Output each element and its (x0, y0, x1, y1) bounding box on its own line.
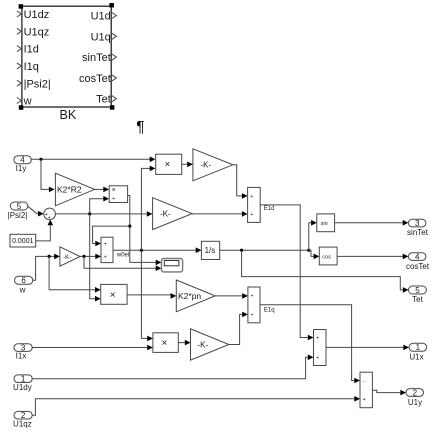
svg-text:sinTet: sinTet (407, 228, 429, 237)
wire U1qz to sum U1y (32, 396, 360, 415)
svg-text:E1q: E1q (264, 308, 275, 314)
sum circle (44, 208, 56, 221)
sum E1q (248, 287, 260, 323)
sum w0el (101, 237, 113, 262)
input port 3 I1x (14, 343, 32, 360)
svg-text:U1qz: U1qz (24, 26, 50, 38)
svg-text:Tet: Tet (96, 94, 111, 106)
svg-text:-K-: -K- (63, 255, 71, 261)
svg-text:×: × (110, 290, 116, 301)
gain K2*R2 (55, 173, 94, 206)
svg-text:K2*pn: K2*pn (178, 291, 201, 301)
svg-text:U1dz: U1dz (24, 9, 50, 21)
svg-text:-K-: -K- (160, 209, 171, 218)
product X2 (101, 284, 127, 304)
wire -K- small to sum w0el (80, 254, 101, 260)
svg-text:w: w (19, 285, 26, 294)
svg-text:×: × (165, 160, 171, 171)
wire X2 to gain K2*pn (127, 293, 176, 299)
svg-text:+: + (104, 242, 107, 248)
svg-text:U1y: U1y (408, 398, 422, 407)
svg-text:BK: BK (60, 108, 77, 122)
output port 5 Tet (409, 286, 427, 304)
wire w0el vertical up to product X1 (141, 166, 155, 251)
svg-text:2: 2 (413, 388, 418, 397)
svg-text:I1d: I1d (24, 44, 39, 56)
wire sum circle to gain -K- mid (55, 211, 152, 217)
wire -K- mid to sum E1d (192, 211, 248, 217)
svg-text:×: × (112, 187, 116, 194)
svg-text:I1y: I1y (16, 164, 27, 173)
product X3 (153, 333, 178, 353)
svg-text:|Psi2|: |Psi2| (24, 78, 51, 90)
svg-text:5: 5 (17, 202, 22, 211)
svg-text:¶: ¶ (136, 119, 144, 136)
output port 4 cosTet (406, 252, 430, 271)
svg-text:1/s: 1/s (205, 246, 216, 255)
output port 3 sinTet (407, 219, 429, 237)
display block (162, 259, 183, 272)
wire branch down to product X2 (90, 214, 101, 302)
wire E1d to sum U1x (260, 205, 313, 340)
wire 1/s out to sin cos branch (220, 249, 311, 252)
wire X1 to gain -K- top (182, 162, 193, 168)
svg-text:-K-: -K- (198, 340, 209, 349)
BK output port chevrons (112, 13, 116, 102)
cos block (319, 247, 337, 265)
output port 1 U1x (409, 343, 427, 361)
svg-text:cosTet: cosTet (406, 262, 430, 271)
wire feedback to sum w0el (93, 226, 130, 246)
svg-text:sin: sin (321, 221, 328, 227)
wire branch up to divide (90, 196, 109, 214)
wire U1dy to sum U1x (32, 355, 313, 379)
svg-text:sinTet: sinTet (82, 52, 111, 64)
wire 0.0001 to sum circle (36, 220, 53, 241)
input port 6 w (15, 276, 33, 294)
wire I1y to product X1 (31, 157, 155, 163)
gain K2*pn (176, 280, 215, 312)
input port 5 |Psi2| (8, 202, 28, 220)
wire E1q to sum U1y (260, 305, 360, 384)
gain -K- bottom (191, 329, 229, 360)
wire |Psi2| to sum circle (28, 206, 44, 216)
wire U1x sum to port 1 (326, 345, 409, 351)
svg-text:U1dy: U1dy (13, 383, 32, 392)
wire branch up to sin (309, 220, 317, 250)
svg-text:w: w (23, 96, 32, 108)
sum E1d (248, 187, 261, 222)
svg-text:E1d: E1d (264, 206, 275, 212)
constant 0.0001 (10, 234, 36, 247)
svg-text:+: + (104, 254, 107, 260)
svg-text:+: + (251, 312, 254, 318)
svg-text:K2*R2: K2*R2 (57, 185, 82, 195)
svg-text:cosTet: cosTet (79, 73, 111, 85)
wire -K- small branch to display (84, 256, 161, 271)
svg-text:+: + (48, 215, 51, 221)
svg-text:|Psi2|: |Psi2| (8, 211, 28, 220)
wire K2*R2 to divide (95, 187, 109, 193)
svg-text:6: 6 (21, 276, 26, 285)
input port 1 U1dy (13, 374, 32, 392)
wire jog to cos (309, 250, 320, 259)
wire K2*pn to sum E1q (215, 293, 248, 299)
svg-text:×: × (162, 338, 168, 349)
svg-text:3: 3 (415, 219, 420, 228)
gain -K- small (60, 247, 80, 266)
svg-text:I1q: I1q (24, 61, 39, 73)
svg-text:+: + (250, 194, 253, 200)
wire w0el to integrator 1/s (113, 247, 201, 253)
subsystem block BK (22, 6, 111, 107)
wire divide down to display (128, 196, 162, 266)
wire branch down to Tet port (242, 250, 409, 293)
BK selection handles (19, 3, 115, 110)
svg-text:0.0001: 0.0001 (12, 238, 34, 245)
input port 4 I1y (14, 156, 32, 174)
sin block (317, 214, 335, 232)
input port 2 U1qz (13, 411, 32, 429)
svg-text:w0el: w0el (116, 252, 129, 258)
svg-text:U1x: U1x (409, 353, 423, 362)
svg-text:U1q: U1q (91, 31, 111, 43)
svg-text:U1qz: U1qz (13, 419, 32, 428)
wire sin to port 3 (335, 220, 409, 226)
wire w branch to product X2 (49, 256, 101, 292)
svg-text:U1d: U1d (91, 11, 111, 23)
wire I1y branch down to gain K2*R2 (41, 159, 55, 192)
svg-text:+: + (250, 212, 253, 218)
svg-text:Tet: Tet (412, 295, 423, 304)
svg-text:+: + (251, 294, 254, 300)
integrator 1/s (201, 241, 219, 259)
wire w to gain -K- small (33, 254, 60, 281)
gain -K- mid (153, 198, 193, 230)
wire X3 to gain -K- bottom (178, 340, 190, 346)
svg-text:4: 4 (415, 252, 420, 261)
svg-text:5: 5 (415, 286, 420, 295)
wire w0el vertical down to product X3 (141, 250, 153, 341)
svg-text:+: + (316, 355, 319, 361)
BK input port chevrons (17, 11, 21, 104)
svg-text:cos: cos (322, 254, 331, 260)
divide block (109, 186, 127, 203)
wire -K- top to sum E1d (233, 165, 248, 199)
svg-text:1: 1 (416, 343, 421, 352)
wire U1y sum to port 2 (372, 390, 406, 396)
sum U1x (314, 330, 327, 366)
wire I1x to product X3 (32, 345, 153, 351)
gain -K- top (193, 149, 233, 181)
svg-text:÷: ÷ (112, 196, 116, 203)
sum U1y (360, 372, 372, 408)
svg-text:-K-: -K- (201, 161, 212, 170)
output port 2 U1y (406, 388, 424, 407)
wire -K- bottom to sum E1q (229, 312, 248, 345)
product X1 (156, 154, 182, 174)
wire cos to port 4 (337, 254, 408, 260)
svg-text:+: + (363, 397, 366, 403)
svg-text:I1x: I1x (16, 352, 27, 361)
svg-text:+: + (316, 336, 319, 342)
